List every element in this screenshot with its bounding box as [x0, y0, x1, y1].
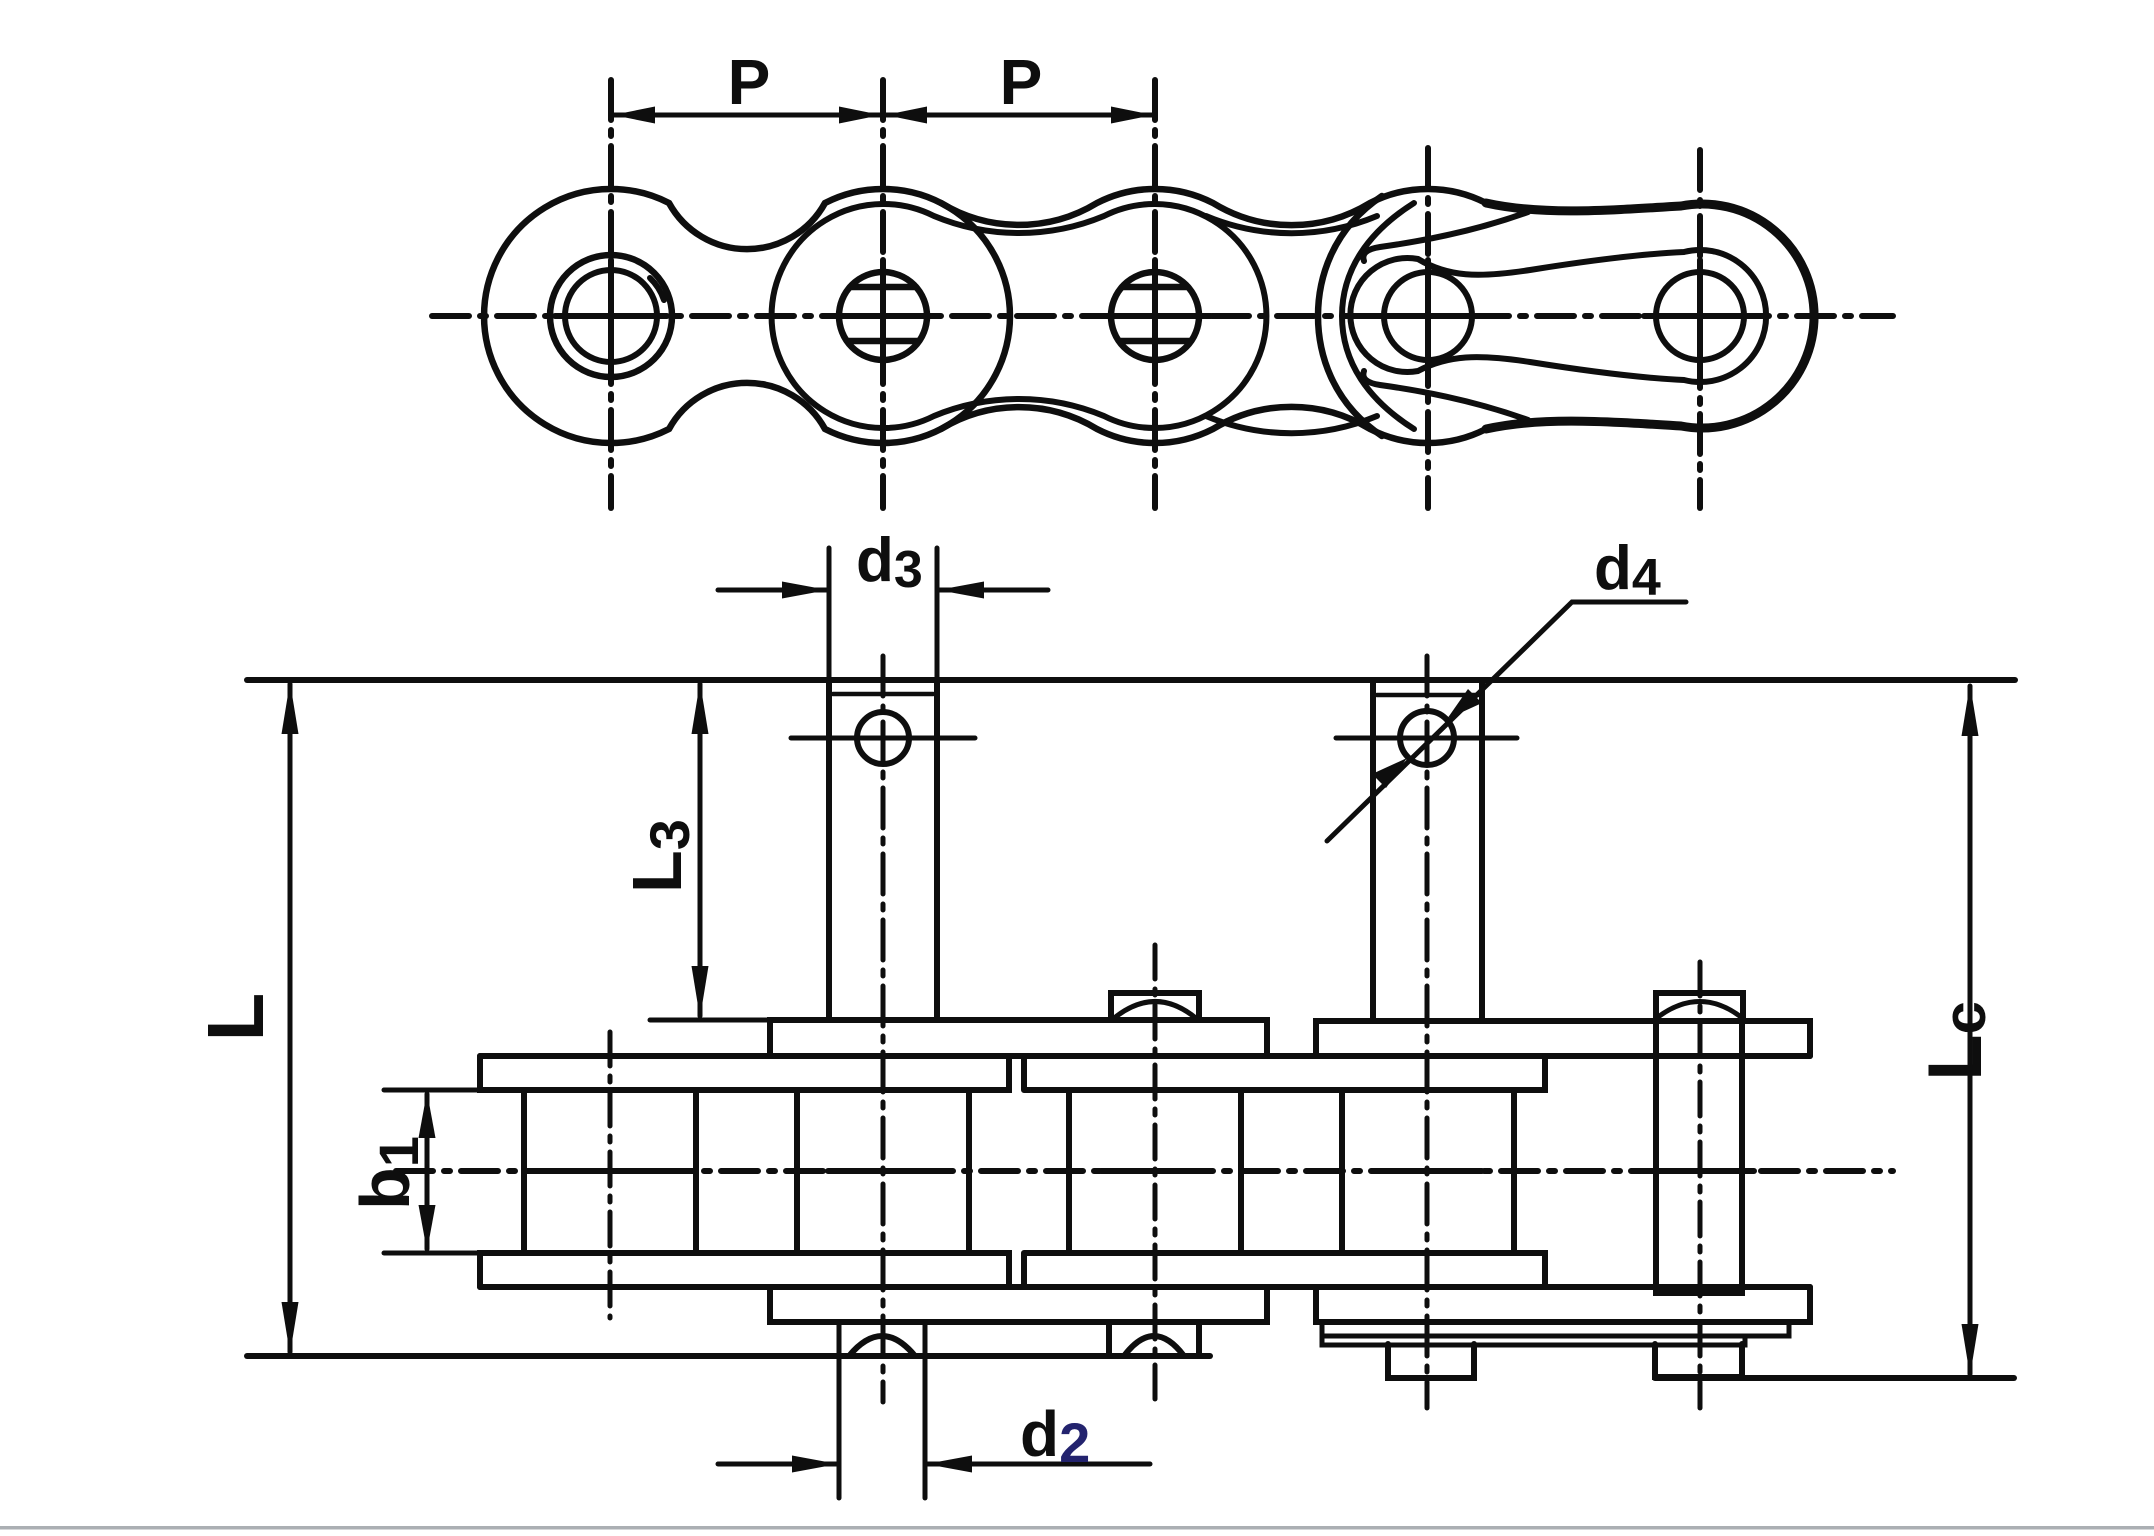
d3 right arrowhead	[938, 582, 984, 599]
svg-text:P: P	[1000, 46, 1043, 118]
svg-text:P: P	[728, 46, 771, 118]
outer link plate 1-2 outline	[484, 189, 1010, 443]
pin 1 roller circle	[550, 255, 672, 377]
side view: pin 1 vertical centerline	[608, 80, 614, 508]
extended pin at pin 2: right side	[934, 681, 940, 1020]
chain bottom silhouette waist 2-3 and arcs under pins 3,4	[941, 407, 1486, 443]
pin 3 top rivet head box	[1111, 993, 1199, 1020]
cranked plate inner bend arc	[1342, 203, 1414, 429]
d2 right dimension line	[927, 1462, 1150, 1467]
upper inner plate row B right plate	[1024, 1056, 1545, 1090]
b1 bottom arrowhead	[419, 1205, 436, 1251]
plan view: pin 1 vertical centerline	[608, 1032, 613, 1318]
pin 3 top rivet dome	[1113, 1002, 1197, 1020]
d3 left arrowhead	[782, 582, 828, 599]
roller 4 right edge	[1511, 1090, 1517, 1253]
plan view centerline solid ticks at pins	[556, 1168, 1754, 1174]
extended pin at pin 4: left side	[1370, 683, 1376, 1021]
dimension b1 vertical line	[425, 1094, 430, 1249]
Lc bottom arrowhead	[1962, 1324, 1979, 1376]
b1 top arrowhead	[419, 1092, 436, 1138]
side view: pin 5 vertical centerline	[1697, 150, 1703, 508]
svg-text:L: L	[191, 993, 280, 1042]
cranked link fork bend upper curve	[1363, 212, 1528, 261]
extended pin 2 hole horizontal centerline	[791, 736, 975, 741]
pin 5 circle	[1656, 272, 1744, 360]
d3 right extension line	[935, 548, 940, 678]
P arrowhead right at pin 3	[1111, 107, 1153, 124]
d2 left arrowhead	[792, 1456, 838, 1473]
extended pin 4 vertical centerline	[1425, 656, 1430, 1408]
lower inner plate row D left plate	[480, 1253, 1009, 1287]
d4 arrowhead lower (points into circle)	[1372, 758, 1407, 788]
d4 arrowhead upper (points into circle)	[1447, 689, 1482, 719]
extended pin at pin 2: left side	[826, 681, 832, 1020]
d2 left dimension line	[718, 1462, 837, 1467]
extended pin 4 hole horizontal centerline	[1336, 736, 1517, 741]
pin 3 bottom stub right side	[1196, 1322, 1202, 1356]
pin 5 top rivet head box	[1656, 993, 1743, 1018]
pin 5 bush rectangle	[1656, 1018, 1742, 1293]
pin 3 bottom rivet dome	[1124, 1336, 1184, 1356]
inner link plate 3-4 outline	[1206, 216, 1377, 433]
pin 4 retaining nut	[1388, 1344, 1474, 1378]
b1 top extension line	[384, 1088, 482, 1093]
plan view: pin 3 vertical centerline	[1153, 945, 1158, 1404]
side view: pin 4 vertical centerline	[1425, 148, 1431, 508]
pin 2 bottom stub right side and d2 extension	[923, 1322, 928, 1498]
extended pin 2 vertical centerline	[881, 656, 886, 1402]
d3 left dimension line	[718, 588, 827, 593]
pin 2 lower flat chord	[847, 338, 919, 345]
L top arrowhead	[282, 682, 299, 734]
row A bottom edge line	[480, 1053, 1810, 1059]
roller 4 left edge	[1339, 1090, 1345, 1253]
P arrowhead left at pin 2	[885, 107, 927, 124]
cranked plate outer bend arc	[1318, 196, 1382, 436]
right baseline (Lc datum)	[1655, 1375, 2014, 1381]
extended pin 4 chamfer line	[1377, 693, 1478, 698]
pin 1 bush ring	[565, 270, 657, 362]
side view: pin 2 vertical centerline	[880, 80, 886, 508]
dimension P second segment	[886, 113, 1152, 118]
extended pin 4 hole circle	[1400, 711, 1454, 765]
d3 left extension line	[827, 548, 832, 678]
pin 2 upper flat chord	[850, 284, 916, 291]
L3 bottom arrowhead	[692, 966, 709, 1018]
extended pin 2 hole circle	[857, 712, 909, 764]
L3 top arrowhead	[692, 682, 709, 734]
P arrowhead right at pin 2	[839, 107, 881, 124]
spring clip strip 2	[1322, 1336, 1745, 1345]
pin 2 bottom rivet dome	[849, 1336, 915, 1356]
roller 3 right edge	[1238, 1090, 1244, 1253]
side view: horizontal dash-dot centerline	[432, 313, 1893, 319]
pin 2 bottom stub left side and d2 extension	[837, 1322, 842, 1498]
lower outer plate row E left plate	[770, 1287, 1267, 1322]
inner link plate 2-3 outline	[772, 204, 1267, 428]
spring clip strip 1	[1322, 1322, 1789, 1336]
pin 3 cross-section circle	[1111, 272, 1199, 360]
L3 extension line at plate top	[650, 1018, 772, 1023]
cranked link fork bend lower curve	[1363, 371, 1528, 420]
upper inner plate row B left plate	[480, 1056, 1009, 1090]
b1 bottom extension line	[384, 1251, 482, 1256]
lower inner plate row D right plate	[1024, 1253, 1545, 1287]
pin 3 lower flat chord	[1119, 338, 1191, 345]
dimension L vertical line	[288, 684, 293, 1352]
dimension L3 vertical line	[698, 684, 703, 1016]
solid centerline ticks at side-view pins	[555, 313, 1756, 319]
d2 right arrowhead	[926, 1456, 972, 1473]
upper outer plate row A right plate	[1316, 1021, 1810, 1056]
plan view: pin 5 vertical centerline	[1698, 962, 1703, 1408]
extended pin at pin 4: right side	[1479, 683, 1485, 1021]
d3 right dimension line	[939, 588, 1048, 593]
plan view: top datum line	[247, 677, 2015, 683]
side view: pin 3 vertical centerline	[1152, 80, 1158, 508]
roller 1 left edge	[521, 1090, 527, 1253]
pin 4 circle	[1384, 272, 1472, 360]
cranked link inner slot oval	[1350, 250, 1766, 382]
pin 3 bottom stub left side	[1106, 1322, 1112, 1356]
cranked offset link thick silhouette	[1486, 203, 1814, 429]
row D bottom edge line	[480, 1284, 1810, 1290]
pin 5 retaining nut	[1655, 1344, 1742, 1377]
page edge shadow	[0, 1526, 2154, 1530]
Lc top arrowhead	[1962, 684, 1979, 736]
P arrowhead left at pin 1	[613, 107, 655, 124]
pin 3 upper flat chord	[1122, 284, 1188, 291]
lower outer plate row E right plate	[1316, 1287, 1810, 1322]
roller 1 right edge	[693, 1090, 699, 1253]
roller 2 right edge	[966, 1090, 972, 1253]
upper outer plate row A left plate	[770, 1020, 1267, 1056]
roller 3 left edge	[1066, 1090, 1072, 1253]
dimension P first segment	[614, 113, 880, 118]
extended pin 2 chamfer line	[833, 692, 933, 697]
roller 2 left edge	[794, 1090, 800, 1253]
pin 2 cross-section circle	[839, 272, 927, 360]
plan view: horizontal dash-dot centerline	[396, 1168, 1893, 1174]
d4 leader diagonal line	[1327, 602, 1686, 841]
chain top silhouette waist 2-3 and arcs over pins 3,4	[941, 189, 1486, 225]
pin 1 bush seam notch	[650, 278, 664, 300]
L bottom arrowhead	[282, 1302, 299, 1354]
left baseline (L datum)	[247, 1353, 1210, 1359]
dimension Lc vertical line	[1968, 686, 1973, 1374]
pin 5 top rivet dome	[1658, 1002, 1741, 1018]
